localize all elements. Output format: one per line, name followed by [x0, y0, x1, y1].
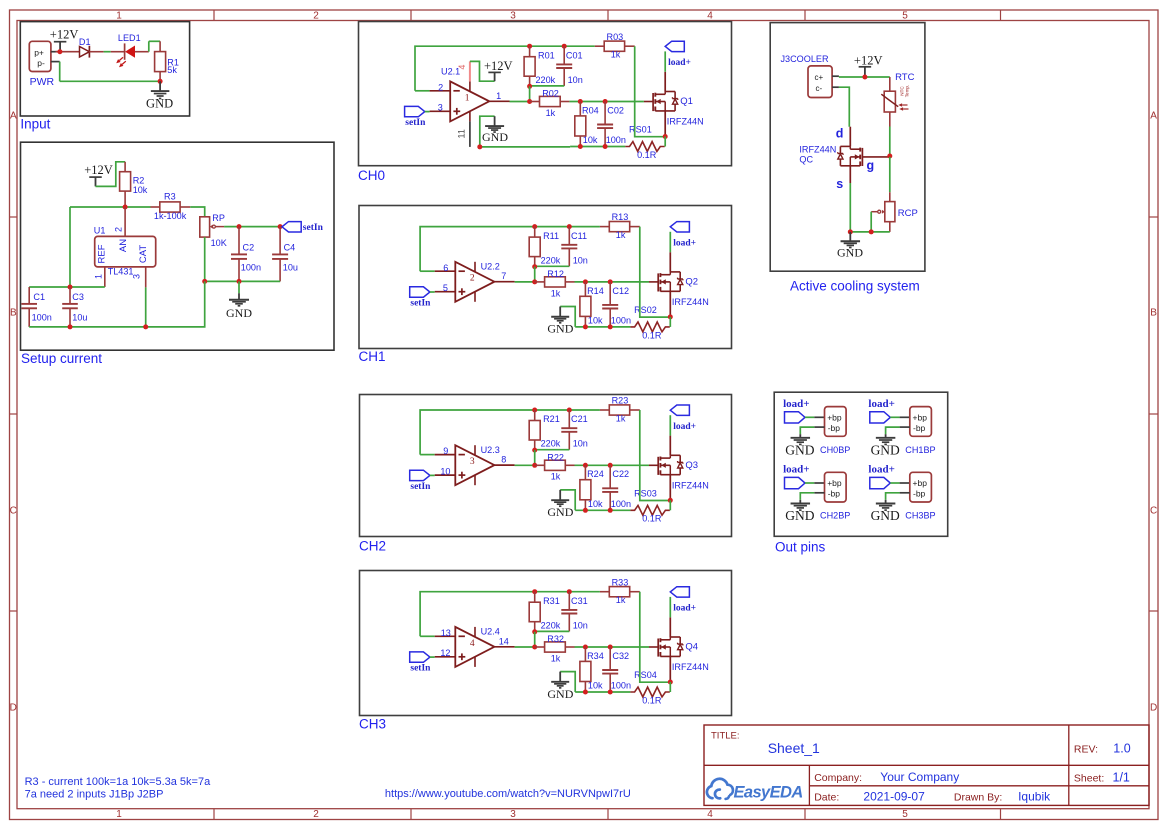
- svg-text:-bp: -bp: [828, 489, 841, 499]
- wire LED-R1 corner: [149, 41, 160, 51]
- junction dot wiper gnd: [869, 229, 874, 234]
- svg-text:10u: 10u: [283, 263, 298, 273]
- svg-text:13: 13: [441, 628, 451, 638]
- led LED1 body: [116, 43, 149, 67]
- svg-text:1: 1: [496, 91, 501, 101]
- CH2 section box: [360, 395, 732, 537]
- svg-text:220k: 220k: [536, 75, 556, 85]
- svg-text:C2: C2: [243, 242, 255, 252]
- svg-text:C01: C01: [566, 50, 583, 60]
- svg-text:5k: 5k: [167, 65, 177, 75]
- gnd sym CH3BP: [876, 500, 896, 510]
- svg-text:220k: 220k: [541, 255, 561, 265]
- Active cooling section box: [770, 23, 925, 272]
- svg-text:load+: load+: [868, 464, 894, 476]
- wire source to rs CH1: [669, 317, 671, 327]
- wire bottom rail extension CH0: [480, 146, 570, 148]
- svg-text:C3: C3: [72, 292, 84, 302]
- svg-text:LED1: LED1: [118, 33, 141, 43]
- junction dot C2 bottom CH2: [608, 508, 613, 513]
- svg-text:R34: R34: [587, 651, 604, 661]
- opamp body U2.3: [435, 445, 515, 485]
- svg-text:IRFZ44N: IRFZ44N: [672, 480, 709, 490]
- svg-text:10n: 10n: [573, 255, 588, 265]
- svg-text:GND: GND: [547, 322, 573, 336]
- port load flag CH0BP: [785, 412, 825, 423]
- svg-text:TITLE:: TITLE:: [711, 731, 740, 742]
- svg-text:RS04: RS04: [634, 670, 657, 680]
- wire gate CH0: [644, 101, 653, 103]
- svg-text:C02: C02: [607, 105, 624, 115]
- wire r2 right CH1: [575, 281, 650, 283]
- wire r3-rp: [190, 207, 204, 217]
- svg-text:load+: load+: [868, 398, 894, 410]
- opamp body U2.2: [435, 262, 515, 302]
- +12V bar setup: [89, 177, 102, 186]
- wire rail left: [70, 206, 151, 208]
- pin1 REF: [94, 244, 108, 287]
- svg-text:10u: 10u: [72, 313, 87, 323]
- wire fb left: [29, 207, 105, 287]
- junction dot output CH1: [532, 279, 537, 284]
- svg-text:Your Company: Your Company: [880, 770, 959, 784]
- svg-text:CH1: CH1: [359, 349, 386, 364]
- connector body CH0BP: [825, 407, 847, 437]
- svg-text:Iqubik: Iqubik: [1018, 790, 1051, 804]
- pin4 CH0: [457, 61, 470, 81]
- gnd cooling sym: [841, 232, 861, 248]
- svg-text:10k: 10k: [133, 185, 148, 195]
- svg-text:c-: c-: [816, 84, 823, 93]
- connector J3COOLER body: [808, 66, 839, 98]
- svg-text:GND: GND: [547, 505, 573, 519]
- junction dot R31 top CH3: [532, 589, 537, 594]
- junction dot C3 bottom: [68, 324, 73, 329]
- wire p+ to D1: [56, 51, 80, 53]
- svg-text:D1: D1: [79, 37, 91, 47]
- junction dot R4 top CH1: [583, 279, 588, 284]
- res r2 CH3: [535, 642, 575, 652]
- svg-text:U2.3: U2.3: [481, 445, 500, 455]
- wire gnd CH3: [560, 672, 575, 692]
- svg-text:R22: R22: [547, 452, 564, 462]
- svg-text:g: g: [867, 159, 875, 173]
- svg-text:setIn: setIn: [410, 664, 431, 674]
- res r4 CH2: [580, 465, 591, 510]
- svg-text:12: 12: [440, 648, 450, 658]
- res r3 CH3: [600, 587, 640, 597]
- potentiometer RP body: [200, 217, 224, 282]
- wire source to rs CH0: [664, 137, 666, 147]
- wire bp gnd CH0BP: [800, 427, 824, 434]
- +12V bar input: [54, 42, 67, 52]
- svg-text:RP: RP: [212, 213, 225, 223]
- connector body CH3BP: [910, 472, 932, 502]
- svg-text:Drawn By:: Drawn By:: [954, 792, 1002, 804]
- junction dot source CH1: [668, 314, 673, 319]
- wire source to rs CH2: [669, 500, 671, 510]
- svg-text:+bp: +bp: [827, 412, 842, 422]
- svg-text:R14: R14: [587, 286, 604, 296]
- svg-text:c+: c+: [815, 73, 824, 82]
- svg-text:2: 2: [114, 227, 124, 232]
- cap c2 CH2: [602, 465, 618, 510]
- svg-text:Q4: Q4: [685, 642, 698, 653]
- svg-text:0.1R: 0.1R: [642, 695, 662, 705]
- svg-text:10k: 10k: [588, 499, 603, 509]
- svg-text:1: 1: [116, 809, 122, 820]
- gnd setup sym: [229, 293, 249, 306]
- svg-text:10n: 10n: [573, 620, 588, 630]
- svg-text:100n: 100n: [606, 135, 626, 145]
- svg-text:load+: load+: [783, 398, 809, 410]
- svg-text:Out pins: Out pins: [775, 540, 826, 555]
- wire r3-source CH0: [635, 46, 666, 137]
- port load flag CH0: [665, 41, 684, 72]
- wire bp gnd CH1BP: [886, 427, 910, 434]
- +12V bar CH0: [488, 72, 501, 81]
- svg-text:R24: R24: [587, 469, 604, 479]
- svg-text:B: B: [10, 308, 17, 319]
- port setIn setup flag: [282, 222, 301, 232]
- svg-text:load+: load+: [673, 422, 696, 432]
- wire feedback CH2: [420, 410, 600, 455]
- svg-text:1k: 1k: [551, 472, 561, 482]
- svg-text:1k: 1k: [616, 230, 626, 240]
- svg-text:+12V: +12V: [50, 27, 79, 41]
- svg-text:220k: 220k: [541, 620, 561, 630]
- svg-text:GND: GND: [482, 130, 508, 144]
- svg-text:GND: GND: [871, 508, 900, 523]
- svg-text:C: C: [10, 506, 17, 517]
- svg-text:100n: 100n: [241, 263, 261, 273]
- opamp body U2.1: [430, 81, 510, 121]
- svg-text:Temp.: Temp.: [905, 85, 910, 98]
- gnd sym CH1: [551, 307, 569, 323]
- svg-text:1k: 1k: [616, 595, 626, 605]
- svg-text:-bp: -bp: [828, 423, 841, 433]
- svg-text:d: d: [836, 126, 844, 140]
- svg-text:GND: GND: [785, 443, 814, 458]
- wire RCP wiper down: [870, 212, 872, 232]
- res r1 CH0: [524, 46, 535, 86]
- svg-text:IRFZ44N: IRFZ44N: [672, 297, 709, 307]
- junction dot R21 top CH2: [532, 408, 537, 413]
- junction dot output CH3: [532, 645, 537, 650]
- junction dot C2 bottom CH1: [608, 324, 613, 329]
- port load flag CH3BP: [870, 477, 910, 488]
- wire r1c1 to output CH2: [534, 450, 536, 465]
- mosfet CH2: [658, 436, 683, 501]
- svg-text:R3: R3: [164, 192, 176, 202]
- svg-text:+bp: +bp: [913, 412, 928, 422]
- svg-text:100n: 100n: [611, 315, 631, 325]
- wire r3-source CH3: [640, 592, 671, 683]
- junction dot source gnd: [848, 229, 853, 234]
- svg-text:4: 4: [707, 809, 713, 820]
- svg-text:Q2: Q2: [685, 277, 698, 288]
- junction dot C2 top CH0: [603, 99, 608, 104]
- gnd input sym: [151, 81, 170, 98]
- res r1 CH2: [529, 410, 540, 450]
- port setIn flag CH2: [410, 470, 435, 480]
- svg-text:R2: R2: [133, 175, 145, 185]
- wire feedback CH1: [420, 227, 600, 272]
- wire gate CH3: [649, 646, 658, 648]
- svg-text:10n: 10n: [573, 439, 588, 449]
- wire c2c4 bottom: [205, 280, 280, 282]
- svg-text:C4: C4: [284, 242, 296, 252]
- svg-text:4: 4: [707, 11, 713, 22]
- gnd sym CH2BP: [791, 500, 811, 510]
- junction dot R1 bottom CH1: [532, 264, 537, 269]
- svg-text:C: C: [1150, 506, 1157, 517]
- svg-text:C22: C22: [612, 469, 629, 479]
- svg-text:3: 3: [510, 809, 516, 820]
- svg-text:5: 5: [443, 283, 448, 293]
- port setIn flag CH0: [405, 106, 430, 116]
- junction dot R1 bottom: [158, 79, 163, 84]
- svg-text:5: 5: [902, 809, 908, 820]
- svg-text:3: 3: [438, 103, 443, 113]
- junction dot C2 bottom CH3: [608, 690, 613, 695]
- svg-text:GND: GND: [146, 97, 173, 111]
- res r2 CH2: [535, 460, 575, 470]
- svg-text:100n: 100n: [611, 499, 631, 509]
- svg-text:1k: 1k: [551, 288, 561, 298]
- diode D1 body: [80, 46, 90, 58]
- junction dot RP bottom rail: [202, 279, 207, 284]
- junction dot R4 bottom CH2: [583, 508, 588, 513]
- svg-text:setIn: setIn: [410, 482, 431, 492]
- svg-text:10k: 10k: [588, 681, 603, 691]
- pin3 CAT: [132, 245, 149, 327]
- svg-text:R3 - current 100k=1a 10k=5.3a: R3 - current 100k=1a 10k=5.3a 5k=7a: [25, 776, 211, 788]
- rs zigzag CH3: [630, 687, 669, 697]
- svg-text:QC: QC: [799, 155, 813, 165]
- svg-text:GND: GND: [871, 443, 900, 458]
- svg-text:100n: 100n: [611, 681, 631, 691]
- junction dot at p+ node: [57, 49, 62, 54]
- wire bp gnd CH2BP: [800, 493, 824, 500]
- res r1 CH3: [529, 592, 540, 632]
- mosfet QC: [838, 127, 863, 232]
- junction dot R1 bottom CH0: [527, 84, 532, 89]
- wire r2 right CH2: [575, 464, 650, 466]
- svg-text:9: 9: [443, 446, 448, 456]
- svg-text:C31: C31: [571, 596, 588, 606]
- wire bottom rail setup: [29, 281, 205, 327]
- wire source to rs CH3: [669, 682, 671, 692]
- junction dot R4 top CH3: [583, 645, 588, 650]
- ntc temp text: [900, 85, 910, 98]
- wire c- drain: [839, 87, 849, 127]
- junction dot R1 bottom CH2: [532, 448, 537, 453]
- cap c2 CH0: [597, 102, 613, 147]
- svg-text:1: 1: [94, 274, 104, 279]
- res r2 CH0: [530, 96, 570, 106]
- svg-text:B: B: [1150, 308, 1157, 319]
- svg-text:U2.2: U2.2: [481, 261, 500, 271]
- rs zigzag CH0: [625, 142, 664, 152]
- junction dot output CH0: [527, 99, 532, 104]
- svg-text:CH3: CH3: [359, 717, 386, 732]
- svg-text:R32: R32: [547, 634, 564, 644]
- wire gnd rail cooling: [850, 231, 890, 233]
- junction dot C01 top CH0: [562, 44, 567, 49]
- wire segment D1-LED1: [89, 51, 124, 53]
- svg-text:U2.4: U2.4: [481, 627, 500, 637]
- svg-text:1/1: 1/1: [1113, 771, 1130, 785]
- Setup current section box: [21, 142, 335, 350]
- gnd sym CH1BP: [876, 434, 896, 444]
- wire 12v-r2: [96, 162, 126, 187]
- Input section box: [20, 22, 189, 116]
- wire r2 right CH0: [569, 101, 644, 103]
- res r3 CH2: [600, 405, 640, 415]
- capacitor C1 body: [21, 287, 37, 327]
- port setIn flag CH1: [410, 287, 435, 297]
- junction dot R1 bottom CH3: [532, 629, 537, 634]
- thermistor RTC body: [881, 77, 908, 127]
- svg-text:C32: C32: [612, 651, 629, 661]
- res r4 CH3: [580, 647, 591, 692]
- wire c+ to RTC: [839, 76, 890, 78]
- rs zigzag CH1: [630, 322, 669, 332]
- svg-text:1: 1: [465, 93, 470, 103]
- port load flag CH1: [670, 222, 689, 253]
- junction dot C2 bottom CH0: [603, 144, 608, 149]
- gnd sym CH3: [551, 672, 569, 688]
- svg-text:J3COOLER: J3COOLER: [781, 54, 829, 64]
- junction dot C2 top CH1: [608, 279, 613, 284]
- svg-text:CAT: CAT: [138, 245, 149, 263]
- svg-text:2021-09-07: 2021-09-07: [863, 790, 925, 804]
- wire bottom rail CH0: [570, 146, 625, 148]
- junction dot C11 top CH1: [567, 224, 572, 229]
- wire gate CH1: [649, 281, 658, 283]
- mosfet CH1: [658, 252, 683, 317]
- svg-text:7: 7: [501, 271, 506, 281]
- junction dot R01 top CH0: [527, 44, 532, 49]
- svg-text:10n: 10n: [568, 75, 583, 85]
- svg-text:RS01: RS01: [629, 125, 652, 135]
- svg-text:4: 4: [470, 639, 475, 649]
- pin2 AN: [114, 207, 130, 252]
- junction dot C2 top CH3: [608, 645, 613, 650]
- wire r3-source CH2: [640, 410, 671, 501]
- CH0 section box: [359, 22, 732, 166]
- junction dot CAT bottom: [143, 324, 148, 329]
- wire bottom rail CH2: [575, 509, 630, 511]
- junction dot C2 bottom: [237, 279, 242, 284]
- svg-text:-bp: -bp: [913, 423, 926, 433]
- svg-text:1k-100k: 1k-100k: [154, 211, 187, 221]
- svg-text:220k: 220k: [541, 439, 561, 449]
- svg-text:R01: R01: [538, 50, 555, 60]
- svg-text:REF: REF: [97, 244, 108, 263]
- svg-text:p-: p-: [37, 58, 45, 68]
- rs zigzag CH2: [630, 505, 669, 515]
- wire RP wiper to setIn: [224, 226, 282, 228]
- svg-text:R02: R02: [542, 89, 559, 99]
- svg-text:A: A: [10, 111, 17, 122]
- svg-text:2: 2: [470, 274, 475, 284]
- port load flag CH3: [670, 587, 689, 618]
- svg-text:D: D: [1150, 703, 1157, 714]
- svg-text:RS03: RS03: [634, 489, 657, 499]
- wire bp gnd CH3BP: [886, 493, 910, 500]
- svg-text:R13: R13: [612, 212, 629, 222]
- junction dot C31 top CH3: [567, 589, 572, 594]
- mosfet CH3: [658, 617, 683, 682]
- junction dot R4 top CH2: [583, 463, 588, 468]
- wire r1c1 to output CH0: [529, 86, 531, 101]
- svg-text:GND: GND: [837, 246, 863, 260]
- svg-text:7a need 2 inputs J1Bp J2BP: 7a need 2 inputs J1Bp J2BP: [25, 789, 164, 801]
- svg-text:https://www.youtube.com/watch?: https://www.youtube.com/watch?v=NURVNpwI…: [385, 788, 631, 800]
- capacitor C2 body: [231, 227, 247, 282]
- res r3 CH1: [600, 222, 640, 232]
- svg-text:2: 2: [313, 11, 319, 22]
- svg-text:1k: 1k: [551, 653, 561, 663]
- junction dot gnd rail CH0: [477, 144, 482, 149]
- wire feedback CH3: [420, 592, 600, 637]
- CH1 section box: [359, 206, 732, 349]
- junction dot output CH2: [532, 463, 537, 468]
- svg-text:R04: R04: [582, 105, 599, 115]
- svg-text:R31: R31: [543, 596, 560, 606]
- port setIn flag CH3: [410, 652, 435, 662]
- svg-text:+bp: +bp: [827, 478, 842, 488]
- cap c1 CH0: [530, 46, 573, 86]
- svg-text:CH3BP: CH3BP: [905, 511, 935, 521]
- svg-text:Date:: Date:: [814, 792, 839, 804]
- svg-text:0.1R: 0.1R: [642, 514, 662, 524]
- svg-text:R03: R03: [607, 32, 624, 42]
- cap c1 CH3: [535, 592, 578, 632]
- svg-text:C12: C12: [612, 286, 629, 296]
- svg-text:R33: R33: [612, 577, 629, 587]
- junction dot R4 top CH0: [578, 99, 583, 104]
- svg-text:load+: load+: [668, 58, 691, 68]
- svg-text:3: 3: [132, 274, 142, 279]
- port load flag CH2: [670, 405, 689, 436]
- svg-text:10K: 10K: [211, 238, 227, 248]
- res r4 CH1: [580, 282, 591, 327]
- junction dot C4 top: [278, 224, 283, 229]
- res r2 CH1: [535, 277, 575, 287]
- mosfet CH0: [653, 72, 678, 137]
- svg-text:GND: GND: [547, 687, 573, 701]
- junction dot C2 top: [237, 224, 242, 229]
- svg-text:+12V: +12V: [484, 59, 513, 73]
- wire gate QC: [862, 156, 889, 158]
- wire RTC node to RCP: [889, 157, 891, 192]
- junction dot source CH3: [668, 680, 673, 685]
- svg-text:Company:: Company:: [814, 772, 862, 784]
- svg-text:14: 14: [499, 636, 509, 646]
- gnd sym CH0BP: [791, 434, 811, 444]
- svg-text:10: 10: [440, 466, 450, 476]
- port load flag CH2BP: [785, 477, 825, 488]
- junction dot R11 top CH1: [532, 224, 537, 229]
- svg-text:+12V: +12V: [854, 53, 883, 67]
- capacitor C4 body: [272, 227, 288, 282]
- svg-text:RTC: RTC: [895, 72, 914, 83]
- svg-text:CH0BP: CH0BP: [820, 445, 850, 455]
- svg-text:-bp: -bp: [913, 489, 926, 499]
